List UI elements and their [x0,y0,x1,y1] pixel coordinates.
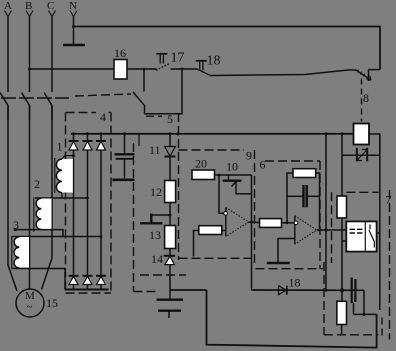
capacitor C1 on bus [115,134,135,178]
node dot on wire to winding2 bottom [14,228,17,231]
feedback rail of op-amp 6 (first stage) [251,175,253,290]
wire to op-amp1 noninverting input [219,175,224,213]
diode D46 (bottom row col3) [96,276,106,290]
feedback right rail [316,173,320,230]
svg-text:~: ~ [27,301,33,313]
wire R20 output row [215,174,252,176]
dashed box 6 right edge [319,161,321,269]
dashed vertical near right rail [381,318,383,338]
output unit box 7 (driver + contact) [346,221,376,251]
protective diode across relay 8 [342,148,380,161]
svg-text:4: 4 [100,110,106,124]
dashed bottom edge right block [324,334,379,336]
svg-text:11: 11 [149,143,161,157]
wire phase A vertical [7,17,9,93]
diode D43 (top row col3) [96,134,106,276]
dashed box 7 [346,191,378,193]
feedback capacitor (parallel) [287,185,320,207]
feedback left rail [287,173,293,223]
dashed vertical edge through 5 / box9 left [178,113,180,260]
bottom common rail (right segment) [252,289,365,291]
wire phase A lower [8,106,17,292]
wire winding3-top to rectifier col3 [12,236,101,238]
wire phase C vertical [51,17,53,93]
wire U2 inverting input to ground bar [278,239,295,263]
breaker contact QA (phase A) [0,93,8,121]
svg-text:16: 16 [114,46,126,60]
winding 1 (phase reactor) [55,140,74,199]
resistor 13 [149,226,176,256]
ground bar below U2 [267,262,290,265]
dashed enclosure left (control box) [133,143,135,292]
node junction after 17 [181,68,184,71]
op-amp U2 (block 6 amplifier) [294,216,317,245]
svg-text:1: 1 [57,140,63,154]
pushbutton 18 (start) [196,54,221,77]
svg-text:6: 6 [260,158,266,172]
electrolytic capacitor bottom left [157,290,184,318]
breaker mechanical linkage (dashed) [1,97,69,99]
wire box7 to right rail [377,232,380,234]
dashed box 6 bottom edge [256,268,324,270]
wire relay8 left tap [341,134,343,196]
wire phase B vertical [29,17,31,93]
svg-text:18: 18 [289,276,301,290]
svg-text:14: 14 [151,252,163,266]
rail right side vertical [379,134,381,310]
wire rail right drop [363,290,365,314]
bottom (-) bus of rectifier [65,289,109,291]
diode D41 (top row col1) [69,134,79,276]
main DC bus (+) [71,133,354,135]
wire U1 output to R coupling [249,221,260,224]
wire holding loop bottom [145,69,183,114]
zener diode 10 [223,160,252,194]
ground terminal bar under C1 [113,179,135,182]
mechanical link relay 8 to contact (dashed) [361,79,363,122]
wire 18 to contact of relay 8 [212,70,357,76]
svg-text:7: 7 [386,193,392,207]
svg-text:17: 17 [171,51,185,66]
node junction between R12/R13 [169,214,172,217]
contact of relay 8 (top right, with arrow) [356,70,380,82]
svg-text:M: M [25,290,35,302]
wire to op-amp2 input [282,222,295,224]
feedback network of op-amp 2: resistor [293,169,316,178]
bottom return U-wire [207,290,377,348]
node C [47,0,56,17]
pushbutton 17 (stop) [156,51,185,71]
resistor 12 [150,181,176,226]
wire 17 to 18 [171,68,198,70]
wire winding2-bottom [15,230,63,237]
relay 8 coil [354,124,370,145]
breaker contact QB (phase B) [22,93,30,121]
op-amp U1 (block 9 comparator) [224,208,249,237]
node U1 output junction [250,221,253,224]
node B [25,0,33,17]
motor 15 [16,289,58,317]
svg-text:9: 9 [246,149,252,163]
wire lower right link [354,313,377,315]
resistor 20 [192,157,215,180]
svg-text:13: 13 [149,228,161,242]
ground terminal stub at R12/R13 junction [140,214,170,224]
breaker contact QC (phase C) [44,93,52,121]
svg-text:3: 3 [13,218,19,232]
node B junction for control branch [28,68,31,71]
wire N vertical [73,17,75,45]
resistor in relay branch [337,196,347,218]
node N junction [72,25,75,28]
wire winding1-bottom / winding2-top to rectifier col2 [35,197,88,199]
rectifier block 4 dashed box [66,113,112,294]
wire phase C lower [42,106,53,290]
aux holding contact (breaker auxiliary) [133,69,145,114]
diode D42 (top row col2) [83,134,93,276]
wire relay16 to aux junction [127,68,157,70]
svg-text:12: 12 [150,185,162,199]
node N [69,0,77,17]
svg-text:10: 10 [226,160,238,174]
wire phase B lower [29,106,31,290]
wire U2 output to relay box 7 [317,229,347,231]
wire relay8 right to rail [369,134,380,155]
bottom common rail (left segment) [170,289,207,291]
svg-text:2: 2 [34,177,40,191]
dashed right outer edge [389,190,391,340]
svg-text:C: C [47,0,54,12]
dashed box 5 (aux contact enclosure) [146,115,162,117]
dashed box 9 bottom edge [179,257,252,259]
dashed left edge right block [323,262,325,335]
resistor bottom right [337,290,347,334]
node junction above aux contact [143,68,146,71]
dashed box 9 divider right edge [254,150,256,266]
svg-text:8: 8 [363,91,369,105]
coupling resistor between stages [260,219,282,228]
winding 3 (phase reactor) [12,218,29,269]
vertical rail from bus to bottom rail [325,134,327,290]
svg-text:N: N [69,0,77,12]
wire winding3-bottom to rectifier minus bus [12,269,65,290]
svg-text:18: 18 [207,54,221,69]
wire N to top right [74,27,381,70]
capacitor bottom right [352,278,356,315]
dashed box 9 top edge [179,149,245,151]
wire control row from B to relay 16 [30,68,115,70]
svg-text:B: B [25,0,32,12]
diode 11 [149,134,176,181]
stub node below bus [138,134,140,146]
node junctions on bus [72,132,75,135]
relay coil 16 [114,60,127,80]
wire U1 lower loop [194,231,199,257]
svg-text:20: 20 [195,157,207,171]
diode D44 (bottom row col1) [69,276,79,290]
svg-text:15: 15 [46,296,58,310]
diode D45 (bottom row col2) [83,276,93,290]
N terminal bar [63,44,85,47]
svg-text:5: 5 [167,112,173,126]
svg-text:A: A [4,0,12,12]
diode 18 (bottom rail) [279,276,301,295]
winding 2 (phase reactor) [34,177,52,232]
node A (phase input label + arrow) [4,0,12,17]
input resistor of U1 [199,226,222,235]
diode 14 [151,252,175,290]
wire resistor to relay driver box [341,218,343,290]
